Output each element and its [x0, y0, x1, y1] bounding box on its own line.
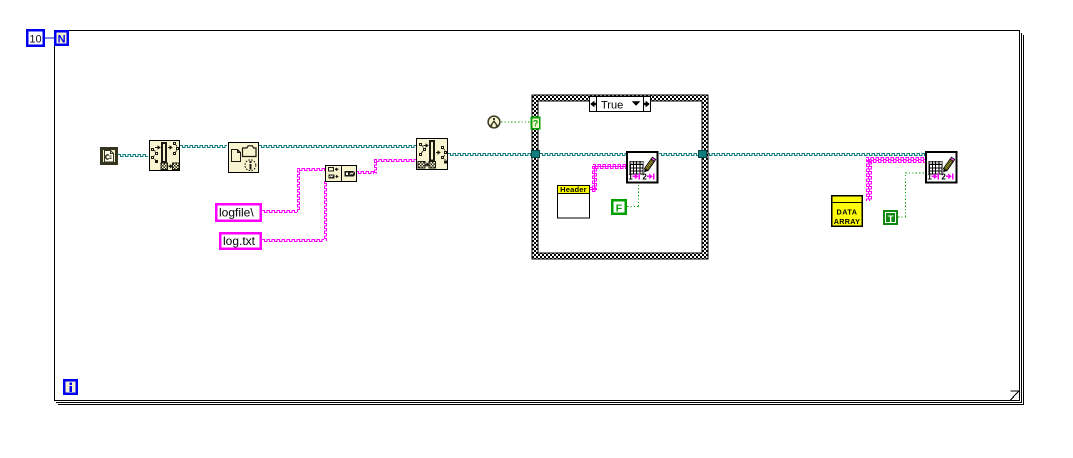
wire log.txt constant to concatenate — [262, 240, 324, 242]
svg-text:?: ? — [533, 119, 539, 129]
wire strip path to file info — [180, 146, 227, 148]
svg-text:T: T — [888, 214, 894, 225]
case structure border — [532, 95, 708, 259]
case selector tunnel ? — [531, 117, 539, 128]
svg-text:F: F — [616, 203, 623, 215]
numeric constant 10 — [27, 30, 44, 46]
wire case tunnel to write icon — [540, 154, 626, 156]
wire T constant to write icon 2 — [898, 216, 906, 218]
Strip Path function — [150, 141, 180, 171]
svg-text:Header: Header — [560, 185, 587, 194]
svg-text:1: 1 — [927, 172, 932, 181]
wire numeric 10 to N — [45, 37, 56, 39]
Header string array constant — [558, 185, 590, 218]
case right tunnel — [698, 150, 706, 157]
wire concatenate to build path — [356, 172, 374, 174]
wire path icon1 to strip path — [118, 155, 148, 157]
svg-text:10: 10 — [29, 34, 41, 46]
string constant logfile\ — [216, 204, 261, 221]
File Directory Info VI — [229, 143, 259, 173]
svg-text:1: 1 — [628, 172, 633, 181]
case left tunnel — [531, 150, 539, 157]
string constant log.txt — [220, 233, 261, 249]
loop count terminal N — [55, 31, 68, 45]
Concatenate Strings function — [326, 166, 357, 182]
svg-text:log.txt: log.txt — [223, 234, 256, 248]
wire logfile constant to concatenate — [262, 211, 297, 213]
wire F constant to write icon — [627, 206, 639, 208]
Build Path function — [417, 139, 448, 170]
Write To Spreadsheet File VI (case) — [627, 152, 658, 183]
svg-text:2: 2 — [941, 172, 946, 181]
wire Header array to write icon — [590, 188, 596, 190]
for loop border — [55, 31, 1024, 405]
svg-text:DATA: DATA — [837, 208, 858, 217]
VI reference icon U1 — [102, 149, 117, 164]
svg-text:ARRAY: ARRAY — [834, 217, 860, 226]
wire file info to build path — [259, 146, 416, 148]
wire write icon to right tunnel — [659, 154, 698, 156]
svg-text:True: True — [601, 99, 623, 111]
boolean constant T — [883, 210, 898, 225]
app property icon — [488, 116, 500, 128]
svg-text:N: N — [58, 34, 66, 46]
wire right tunnel to write icon 2 — [707, 154, 925, 156]
svg-text:logfile\: logfile\ — [219, 206, 254, 220]
DATA ARRAY constant — [831, 196, 863, 227]
case selector label True — [590, 96, 651, 112]
boolean constant F — [612, 200, 626, 214]
svg-text:2: 2 — [642, 172, 647, 181]
Write To Spreadsheet File VI 2 — [926, 152, 957, 183]
wire app icon to case selector tunnel — [501, 121, 531, 123]
loop iteration terminal i — [64, 380, 77, 394]
wire build path to case left tunnel — [448, 154, 531, 156]
wire DATA ARRAY to write icon 2 — [867, 159, 869, 201]
